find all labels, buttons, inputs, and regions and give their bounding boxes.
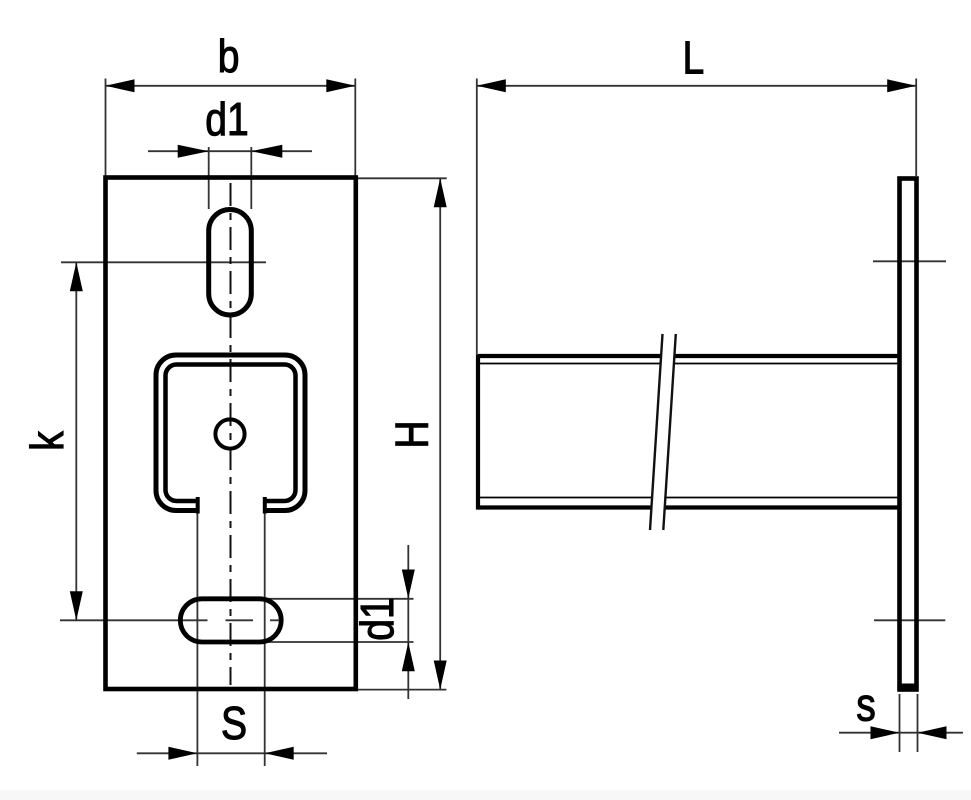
- svg-text:L: L: [683, 33, 705, 85]
- svg-text:S: S: [221, 698, 247, 750]
- svg-text:s: s: [856, 680, 876, 732]
- svg-text:d1: d1: [352, 597, 404, 640]
- svg-text:b: b: [218, 31, 240, 83]
- svg-text:d1: d1: [205, 94, 248, 146]
- svg-text:H: H: [387, 420, 439, 448]
- svg-text:k: k: [22, 431, 74, 451]
